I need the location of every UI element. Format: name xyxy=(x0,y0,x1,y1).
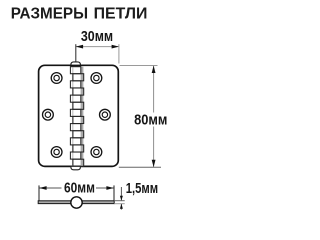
screw hole mid-left xyxy=(43,109,54,120)
extension line right 30мм xyxy=(118,44,120,63)
extension line left 60мм xyxy=(38,185,40,200)
svg-text:1,5мм: 1,5мм xyxy=(126,181,158,197)
arrow right 60мм xyxy=(106,186,113,190)
svg-text:ПЕТЛИ: ПЕТЛИ xyxy=(94,5,148,22)
dim line 60мм left xyxy=(39,187,61,189)
screw hole top-left xyxy=(51,73,62,84)
arrow down 1,5мм xyxy=(120,196,123,201)
arrow left 30мм xyxy=(76,45,83,49)
hinge leaf plate (front view outline) xyxy=(39,65,119,166)
pin extension line xyxy=(75,44,77,62)
arrow down 80мм xyxy=(152,160,156,167)
screw hole bottom-left xyxy=(51,147,62,158)
arrow left 60мм xyxy=(39,186,46,190)
extension line top 80мм xyxy=(120,65,158,67)
barrel shading right xyxy=(81,67,84,167)
barrel top cap xyxy=(71,62,81,67)
svg-text:30мм: 30мм xyxy=(81,29,113,45)
arrow up 80мм xyxy=(152,66,156,73)
barrel bottom cap xyxy=(71,166,81,170)
dim line 80мм lower xyxy=(153,127,155,168)
bottom view plate xyxy=(38,201,114,204)
screw hole mid-right xyxy=(100,109,111,120)
dim line 60мм right xyxy=(96,187,114,189)
screw hole bottom-right xyxy=(91,147,102,158)
extension line right 60мм xyxy=(113,185,115,200)
svg-text:80мм: 80мм xyxy=(134,113,167,129)
svg-text:60мм: 60мм xyxy=(64,180,95,196)
dim line 30мм xyxy=(76,46,119,48)
leaf top edge across barrel xyxy=(70,64,81,66)
extension line bottom 80мм xyxy=(119,166,161,168)
extension line bottom 1,5мм xyxy=(114,203,125,205)
screw hole top-right xyxy=(91,73,102,84)
dim line 1,5мм upper xyxy=(120,187,122,200)
extension line top 1,5мм xyxy=(114,200,125,202)
arrow up 1,5мм xyxy=(120,204,123,209)
svg-text:РАЗМЕРЫ: РАЗМЕРЫ xyxy=(11,5,88,22)
dim line 80мм upper xyxy=(153,66,155,113)
dim line 1,5мм lower xyxy=(120,204,122,210)
barrel shading left xyxy=(72,67,74,167)
arrow right 30мм xyxy=(112,45,119,49)
barrel circle plan view xyxy=(71,197,82,208)
knuckle segments xyxy=(70,67,83,167)
